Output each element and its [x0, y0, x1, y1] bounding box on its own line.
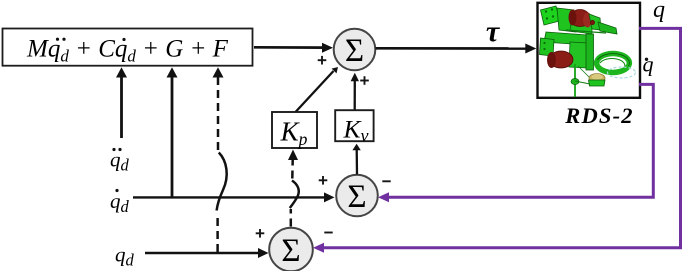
- small red hub: [590, 20, 594, 24]
- wire: qd_d branch up into eq box: [167, 67, 178, 197]
- robot image (simplified CAD drawing): [540, 6, 636, 97]
- svg-text:Σ: Σ: [281, 233, 300, 269]
- thin linkage: [575, 81, 590, 84]
- wire: qdd_d up into eq box: [116, 67, 127, 138]
- plus sign at sum2 left input: [319, 176, 328, 185]
- Kv box: [335, 110, 373, 145]
- svg-text:qd: qd: [110, 189, 130, 216]
- output label q-dot: [643, 52, 654, 77]
- wire: eq box to sum1: [254, 43, 333, 53]
- middle green rail: [544, 32, 587, 45]
- summing junction sum1 (top): [334, 29, 376, 71]
- dashed wire: sum3 up to Kp with curved hop: [288, 150, 299, 227]
- green center filler: [570, 12, 592, 34]
- Kp box: [272, 112, 317, 149]
- small clamp knob on line: [571, 79, 579, 85]
- left lower plate: [540, 38, 555, 56]
- svg-text:q: q: [653, 0, 665, 23]
- svg-text:RDS-2: RDS-2: [564, 103, 634, 128]
- minus sign at sum2 right input: [382, 180, 390, 182]
- dot over second q (q-dot): [122, 38, 125, 41]
- wire: sum2 to Kv (vertical): [352, 144, 360, 175]
- minus sign at sum3 right input: [324, 232, 332, 234]
- dots over first q (q-double-dot): [56, 38, 59, 41]
- small green base: [589, 80, 606, 86]
- input label qdd_d: [110, 148, 130, 175]
- equation box M qdd + C qd + G + F: [3, 29, 253, 66]
- wire: Kp to sum1 (diagonal): [296, 67, 339, 112]
- input label qd_d: [110, 189, 130, 216]
- red motor mid-left: [547, 51, 573, 68]
- svg-text:Σ: Σ: [347, 179, 366, 215]
- wire: qd_d horizontal to sum2: [133, 192, 335, 202]
- purple feedback wire q (outer): [313, 28, 681, 252]
- wire: sum1 to plant with tau label: [376, 15, 537, 54]
- diagonal thin rod: [566, 30, 606, 33]
- dashed wire: q_d branch up into eq box with curved hop: [213, 67, 227, 252]
- svg-text:q: q: [643, 52, 654, 77]
- light blue dashed arc: [608, 67, 636, 78]
- wire: q_d horizontal to sum3: [145, 248, 269, 258]
- plus sign at sum1 bottom input: [360, 76, 369, 85]
- summing junction sum3 (bottom): [269, 228, 313, 271]
- red motor top: [569, 10, 593, 28]
- wire: Kv to sum1 (vertical): [351, 73, 359, 110]
- top-left green plate: [541, 6, 560, 25]
- svg-text:qd: qd: [115, 243, 135, 270]
- plus sign at sum3 left input: [256, 229, 265, 238]
- vertical column: [586, 34, 594, 70]
- purple feedback wire q-dot (inner): [378, 84, 653, 202]
- upper green block: [557, 8, 576, 32]
- green flange right of motor: [589, 14, 601, 30]
- svg-text:qd: qd: [110, 148, 130, 175]
- thin vertical line to bottom: [574, 64, 576, 97]
- plus sign at sum1 left input: [318, 56, 327, 65]
- green arm to right: [598, 22, 617, 34]
- summing junction sum2 (middle): [336, 175, 378, 217]
- svg-text:Σ: Σ: [345, 33, 364, 69]
- yellow disc: [589, 74, 605, 83]
- svg-text:τ: τ: [486, 15, 501, 48]
- green block behind mid motor: [569, 42, 588, 68]
- plant box RDS-2: [538, 3, 641, 98]
- ring clamp: [597, 54, 630, 73]
